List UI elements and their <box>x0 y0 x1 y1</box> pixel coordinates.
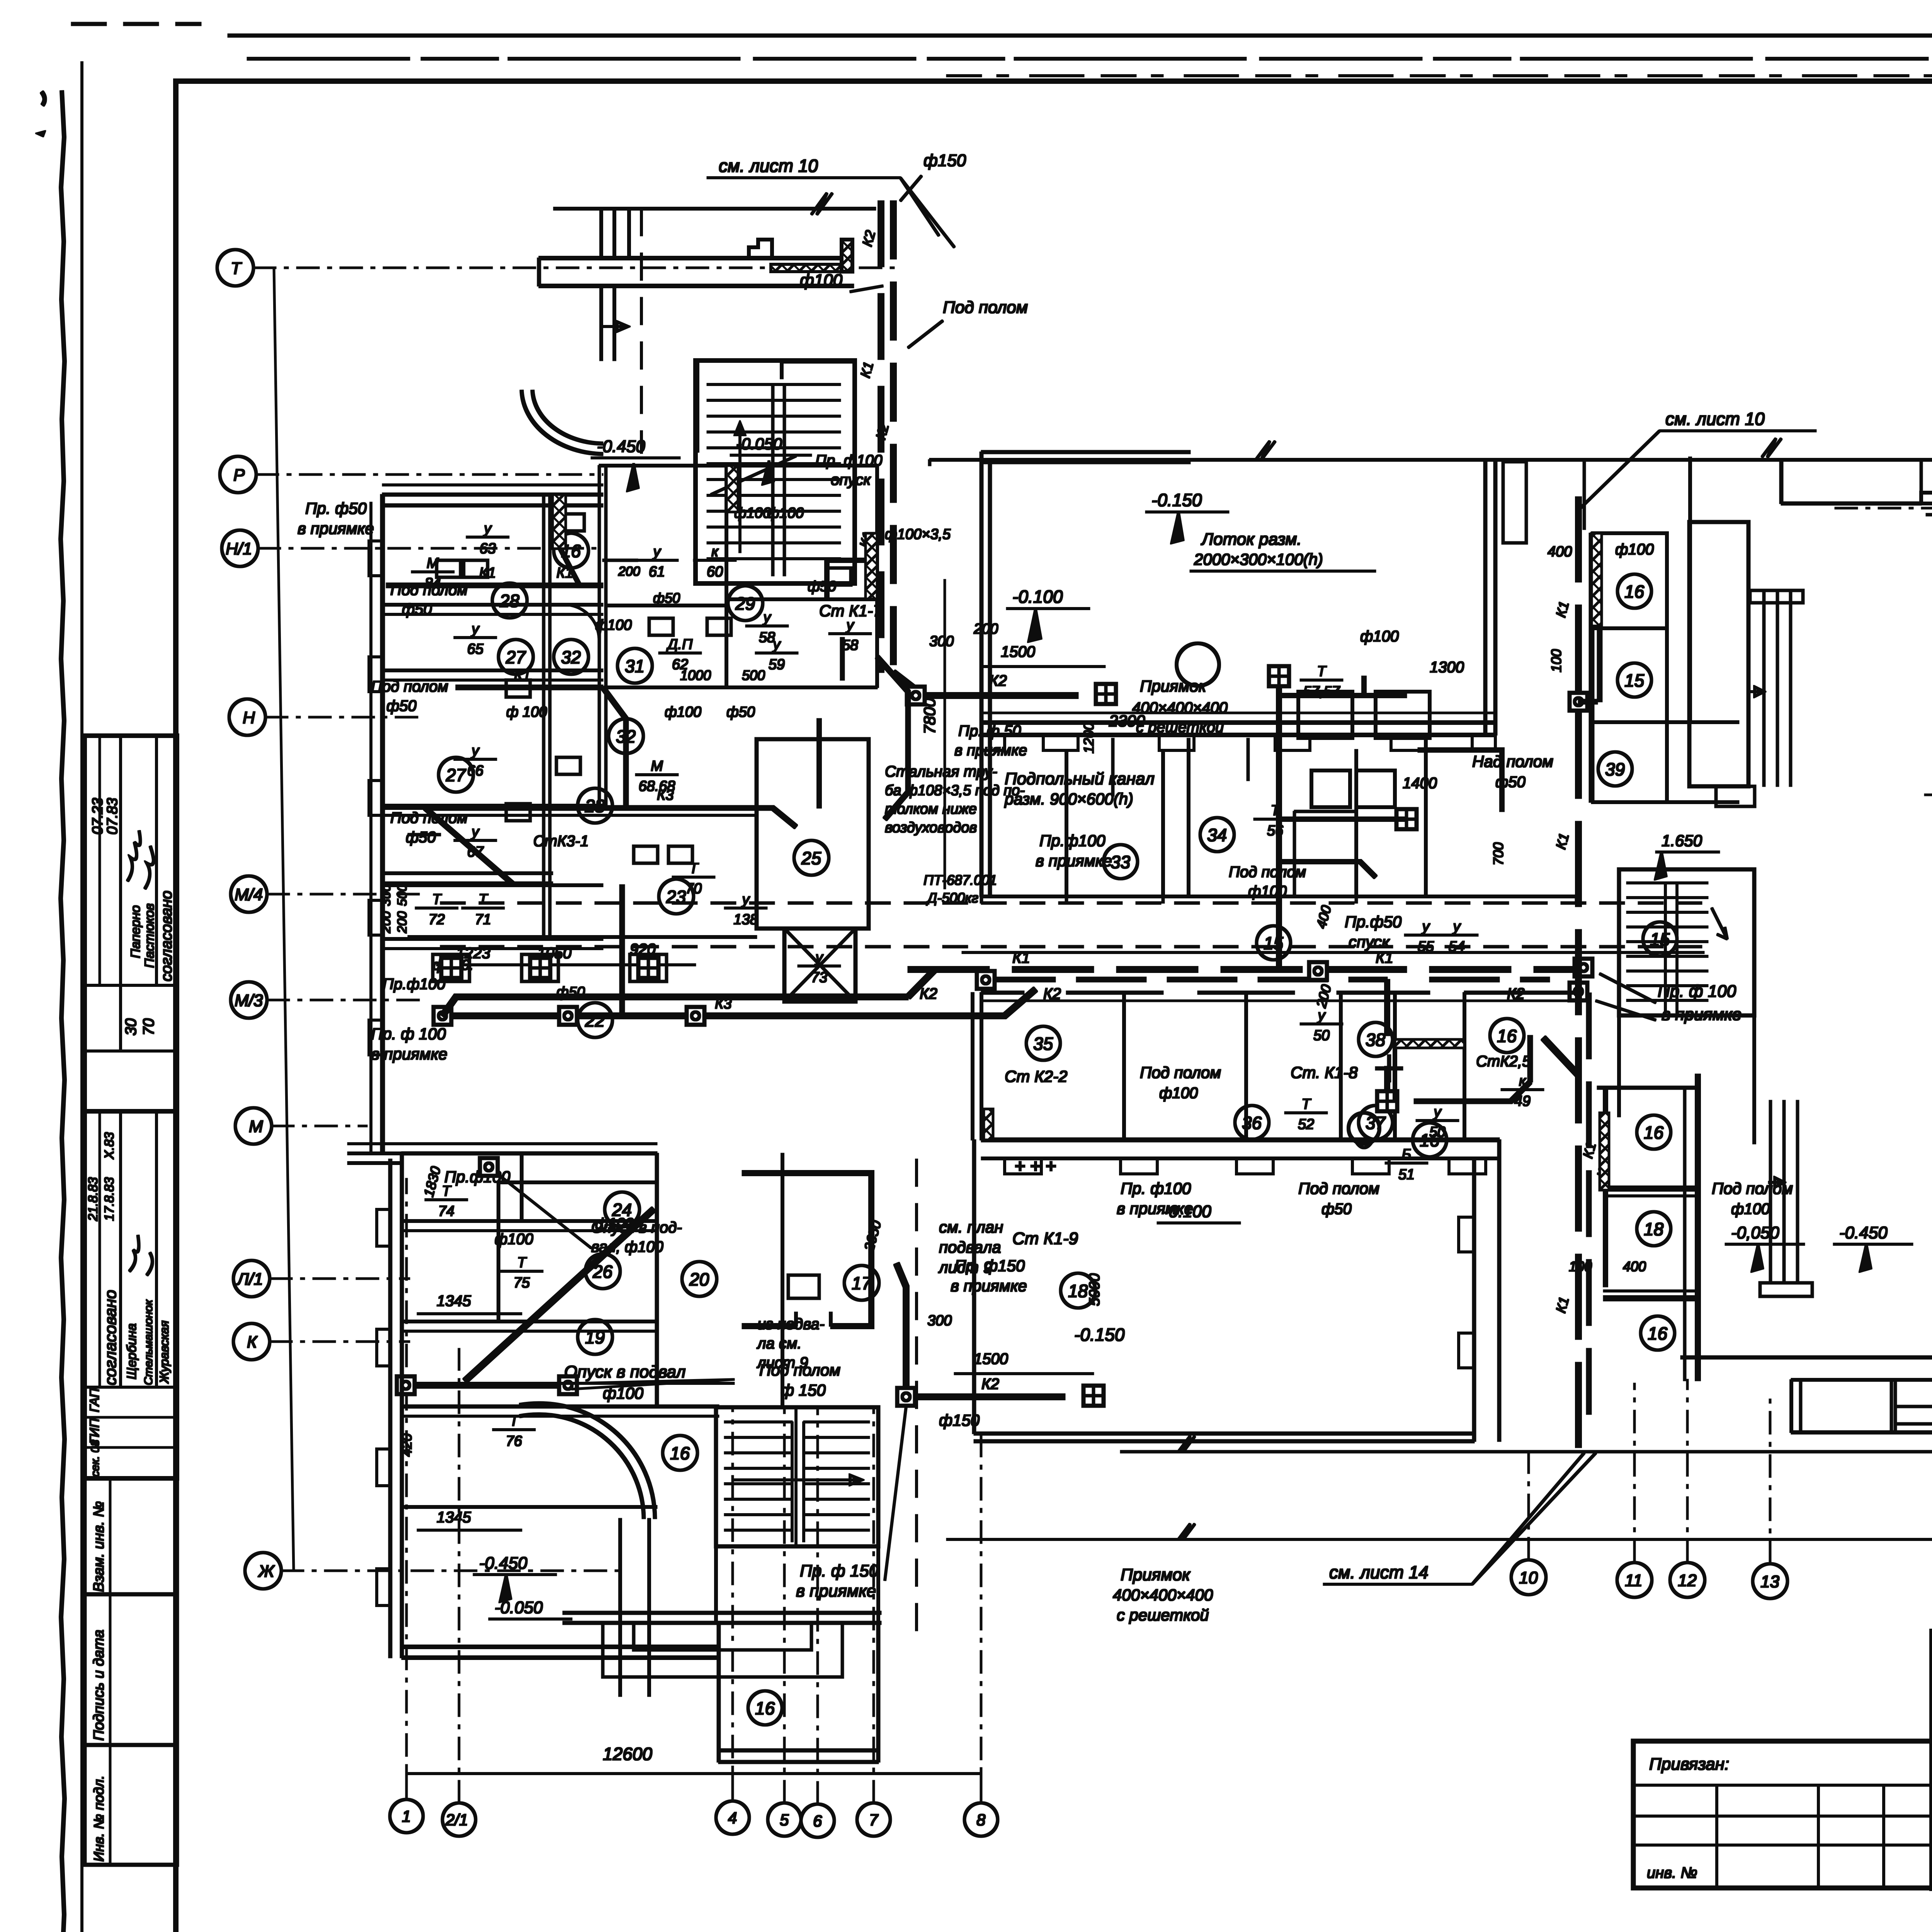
stair1 break diag <box>711 456 796 495</box>
svg-text:ф50: ф50 <box>653 590 680 606</box>
ULB pilasters left <box>369 541 383 1055</box>
svg-text:ф100: ф100 <box>1731 1201 1770 1218</box>
break sym 1 <box>1179 1436 1195 1452</box>
sewer K2 bottom vert <box>896 1264 906 1387</box>
leader opusk b <box>572 1379 734 1389</box>
svg-text:100: 100 <box>1548 649 1564 672</box>
svg-text:1000: 1000 <box>680 667 711 683</box>
svg-text:К1: К1 <box>479 565 496 581</box>
bottom portal steps <box>603 1623 842 1677</box>
ULB wall h2291 <box>383 884 603 887</box>
svg-text:20: 20 <box>689 1269 709 1289</box>
svg-text:-0,050: -0,050 <box>1731 1223 1779 1242</box>
sewer K3 diag 2 <box>425 808 514 885</box>
junction K3 f <box>480 1158 498 1176</box>
hatch wall 16b <box>726 466 738 512</box>
svg-text:Опуск в подвал: Опуск в подвал <box>564 1362 685 1381</box>
room16 wall left <box>697 361 711 452</box>
axis line 1 <box>406 1179 407 1799</box>
junction box K2 priyamok <box>907 687 925 704</box>
kitchen band wall h2320 <box>981 895 1577 898</box>
svg-text:Пр. ф100: Пр. ф100 <box>1121 1179 1191 1197</box>
sewer K2 segment right2 <box>1430 977 1549 982</box>
leader pr end2 <box>1596 1001 1656 1020</box>
axis line М/4 <box>267 893 421 895</box>
svg-text:Ст К2-2: Ст К2-2 <box>1005 1067 1067 1085</box>
LLW wall h3420 face <box>402 1330 657 1332</box>
stair1 arrow <box>735 423 745 553</box>
svg-text:Под полом: Под полом <box>1298 1179 1379 1197</box>
svg-text:у: у <box>1433 1104 1442 1120</box>
svg-text:согласовано: согласовано <box>101 1290 119 1385</box>
tambour wall a <box>601 209 614 258</box>
sewer K3 main h <box>442 989 1036 1016</box>
svg-text:39: 39 <box>1605 759 1625 779</box>
hatch wall 29a <box>866 533 877 599</box>
axis line П <box>1832 507 1932 509</box>
svg-text:ф100: ф100 <box>665 704 701 720</box>
svg-text:у: у <box>1421 918 1430 935</box>
room circle 28a <box>492 583 527 618</box>
room circle 15g <box>1617 663 1651 697</box>
svg-text:у: у <box>741 891 750 908</box>
axis line М/5 <box>1917 794 1932 796</box>
RW main K1 vert <box>1576 497 1582 1447</box>
svg-text:300: 300 <box>927 1313 952 1329</box>
svg-text:ф100: ф100 <box>800 271 843 290</box>
toilet bowl 37 <box>1356 1142 1372 1148</box>
room circle 20 <box>682 1262 717 1296</box>
room circle 16a <box>554 533 588 568</box>
room circle 16i <box>1641 1316 1675 1350</box>
svg-text:07.23: 07.23 <box>90 798 106 835</box>
axis circle Р <box>220 456 256 493</box>
svg-text:-0.050: -0.050 <box>736 435 782 453</box>
svg-text:54: 54 <box>1449 939 1465 955</box>
stamp block A row line <box>85 985 177 986</box>
svg-text:Под полом: Под полом <box>1140 1063 1221 1082</box>
ULB wall h2085 face <box>383 815 757 816</box>
room circle 39 <box>1598 752 1632 786</box>
LLW step ledge <box>348 1153 402 1163</box>
ULB wall h1565 face <box>383 614 603 616</box>
leader sm list14b <box>1472 1453 1596 1584</box>
svg-text:подвала: подвала <box>939 1238 1001 1256</box>
svg-text:16: 16 <box>1624 582 1645 602</box>
room circle 27b <box>439 757 473 792</box>
stamp block A signature squiggle 2 <box>145 846 153 889</box>
fixture 6 <box>649 618 673 635</box>
LLW wall h3900 <box>402 1506 657 1509</box>
svg-text:31: 31 <box>625 656 645 676</box>
grade line lower <box>947 1539 1932 1541</box>
stamp block B signature squiggle <box>129 1235 152 1275</box>
canopy left cap <box>537 258 541 286</box>
uline -0450 rwl <box>1833 1243 1913 1245</box>
svg-text:ГАП: ГАП <box>87 1388 102 1412</box>
svg-text:Т: Т <box>432 891 442 908</box>
svg-text:2/1: 2/1 <box>445 1811 468 1829</box>
RWB corridor arrow <box>1769 1178 1784 1187</box>
stair2 diag arrow <box>734 1475 862 1485</box>
stair2 treads <box>724 1422 869 1530</box>
corridor circle 15a <box>1257 926 1291 960</box>
svg-text:-0.100: -0.100 <box>1012 587 1063 607</box>
svg-text:Т: Т <box>231 259 242 278</box>
kitchen band wall v3510 <box>1355 750 1358 896</box>
small arrow mark left <box>36 131 46 137</box>
RWL hatched v <box>1604 1088 1608 1287</box>
left inner thin line <box>81 62 83 1932</box>
RWB corridor ledge <box>1760 1283 1812 1296</box>
stamp cell Взам инв <box>85 1478 177 1594</box>
sewer hall elbow <box>1279 862 1376 877</box>
fixture 8 <box>827 568 851 585</box>
svg-text:Ст К1-9: Ст К1-9 <box>1012 1229 1078 1248</box>
svg-text:Пр. ф 150: Пр. ф 150 <box>800 1561 879 1580</box>
room circle 22 <box>578 1003 612 1037</box>
svg-text:ф100×3,5: ф100×3,5 <box>885 526 951 543</box>
svg-text:15: 15 <box>1650 929 1670 949</box>
leader sm list14 <box>1472 1453 1584 1584</box>
uline lotok <box>1190 570 1376 572</box>
room17 partition <box>781 1153 784 1406</box>
LLW pilasters <box>377 1209 390 1605</box>
svg-text:1345: 1345 <box>437 1293 471 1310</box>
RW portal mid vert <box>1921 460 1932 527</box>
junction K3 c <box>687 1007 704 1025</box>
sewer K1 h2 line <box>456 685 603 690</box>
svg-text:у: у <box>845 617 855 633</box>
axis line Л/1 <box>270 1278 410 1279</box>
arrow -0450 low <box>500 1575 511 1602</box>
canopy band bottom <box>539 284 854 288</box>
svg-text:59: 59 <box>769 656 785 673</box>
axis line Н <box>265 716 421 718</box>
svg-text:16: 16 <box>1644 1122 1664 1143</box>
svg-text:1300: 1300 <box>1430 659 1464 676</box>
BC bottom wall hatched <box>981 1138 1499 1142</box>
svg-text:Взам. инв. №: Взам. инв. № <box>91 1501 107 1592</box>
room circle 16h <box>1637 1115 1671 1149</box>
svg-text:63: 63 <box>480 541 496 557</box>
svg-text:Н: Н <box>243 708 255 727</box>
hatch wall 38a2 <box>1395 1039 1464 1048</box>
svg-text:420: 420 <box>399 1434 415 1457</box>
ULB wall h1735 face <box>383 679 603 681</box>
BC bottom wall lower <box>981 1157 1499 1160</box>
stair2 box <box>716 1407 878 1546</box>
room circle 16e <box>1413 1123 1447 1157</box>
LLW room20 walls <box>498 1182 657 1321</box>
ULB wall h2085 <box>383 804 603 807</box>
junction K3 b <box>559 1007 577 1025</box>
junction main b <box>1309 962 1327 980</box>
stair3 treads <box>1627 883 1708 1000</box>
wall y1205 <box>599 464 877 467</box>
stamp cell Инв № подл <box>85 1745 177 1865</box>
sewer diag 38a <box>877 657 908 792</box>
svg-text:Т: Т <box>442 1183 452 1199</box>
room circle 33 <box>1104 845 1138 879</box>
axis circle 13 <box>1753 1564 1787 1599</box>
room circle 17 <box>844 1265 879 1300</box>
stair3 box <box>1619 869 1754 1015</box>
svg-text:Пр. ф150: Пр. ф150 <box>954 1257 1025 1275</box>
svg-text:11: 11 <box>1625 1571 1643 1590</box>
sewer K3 diag 1 <box>603 687 626 808</box>
svg-text:у: у <box>471 621 480 637</box>
sewer K1 room line 1 <box>421 583 603 588</box>
svg-text:60: 60 <box>707 564 723 580</box>
axis dashed x2372 <box>916 1159 918 1646</box>
room circle 18 <box>1061 1273 1095 1308</box>
svg-text:в приямке: в приямке <box>298 519 374 537</box>
svg-text:34: 34 <box>1207 825 1227 845</box>
ULB door arcs <box>564 605 599 639</box>
svg-text:Паперно: Паперно <box>128 905 143 958</box>
top wing outer edge line <box>554 207 876 210</box>
svg-text:15: 15 <box>1624 670 1645 690</box>
room circle 35 <box>1026 1026 1060 1060</box>
canopy notch <box>749 240 772 258</box>
LLW bottom wall <box>402 1647 719 1658</box>
axis circle 11 <box>1617 1563 1652 1597</box>
dim line x <box>437 964 696 966</box>
RWB steps inner <box>1801 1380 1932 1432</box>
svg-text:Н/1: Н/1 <box>226 539 252 558</box>
svg-text:ф50: ф50 <box>1321 1201 1352 1218</box>
sewer main K1 right <box>908 967 1583 973</box>
svg-text:07.83: 07.83 <box>104 798 121 835</box>
kitchen hatched corner <box>1418 750 1502 811</box>
sewer vert x1610 <box>620 885 624 1016</box>
stair1 stringer <box>773 384 784 576</box>
big room left wall <box>973 1140 976 1434</box>
axis circle Н/1 <box>222 530 258 566</box>
hall fixture rect2 <box>1376 692 1430 738</box>
stamp block A outer <box>85 736 177 1111</box>
svg-text:76: 76 <box>506 1433 522 1449</box>
sewer main K2 right <box>986 977 1387 982</box>
svg-text:Т: Т <box>478 891 488 908</box>
kitchen fixture 2 <box>1356 770 1395 807</box>
curved wall low inner <box>520 1415 644 1519</box>
axis line 10 <box>1528 1447 1529 1560</box>
tambour wall a low <box>601 286 614 361</box>
leader see sheet10 diag <box>900 178 954 247</box>
LLW wall h3160 <box>402 1153 657 1221</box>
svg-text:ф100: ф100 <box>1615 541 1654 558</box>
sewer 37 vert <box>1385 980 1390 1101</box>
stair2 lower box <box>716 1546 878 1623</box>
junction K2 bottom a <box>897 1388 915 1406</box>
svg-text:27: 27 <box>505 647 526 667</box>
sewer corner 38 <box>885 792 908 819</box>
axis circle 4 <box>716 1801 749 1834</box>
svg-text:у: у <box>471 824 480 840</box>
boundary vert x2406 <box>929 460 931 466</box>
svg-text:400: 400 <box>1548 544 1572 560</box>
axis line 8 <box>980 1430 982 1803</box>
fix corr 1 <box>433 954 469 981</box>
bottom portal lower band <box>719 1750 878 1762</box>
svg-text:Лоток разм.: Лоток разм. <box>1201 530 1302 549</box>
axis circle 5 <box>768 1803 801 1836</box>
svg-text:К2: К2 <box>981 1376 999 1393</box>
lift shaft box <box>784 929 855 1002</box>
svg-text:32: 32 <box>561 647 581 667</box>
svg-text:в приямке: в приямке <box>951 1277 1027 1295</box>
ULB wall v1551 <box>599 466 606 808</box>
sewer hall branch2 <box>1279 817 1406 821</box>
svg-text:у: у <box>652 544 662 560</box>
RWL wall top <box>1597 1086 1698 1089</box>
stair1 treads <box>707 384 840 559</box>
uline sm list 14 <box>1323 1583 1472 1585</box>
svg-text:21.8.83: 21.8.83 <box>86 1177 100 1221</box>
junction main c <box>1575 959 1592 976</box>
svg-text:74: 74 <box>438 1203 454 1219</box>
RWB corridor verticals <box>1770 1100 1798 1283</box>
svg-text:Под полом: Под полом <box>943 298 1028 317</box>
svg-text:52: 52 <box>1298 1116 1314 1133</box>
svg-text:К2: К2 <box>920 985 937 1002</box>
svg-text:200: 200 <box>379 911 393 934</box>
hatch wall 16a <box>553 495 566 549</box>
RW corridor arrow <box>1748 687 1764 696</box>
hall bottom wall face <box>981 712 1495 714</box>
sewer hall stub <box>1279 676 1406 696</box>
small arc ramp outer <box>522 390 603 454</box>
leader f150 <box>900 176 922 201</box>
axis dashed vert <box>641 209 643 453</box>
pit K2 upper <box>1096 684 1116 704</box>
room circle 16g <box>1617 574 1651 608</box>
RW portal door step <box>1926 503 1932 515</box>
svg-text:ф150: ф150 <box>923 151 966 170</box>
ULB top wall <box>383 495 603 505</box>
RW portal left vert <box>1780 460 1783 503</box>
svg-text:5000: 5000 <box>1087 1273 1103 1306</box>
svg-text:вал, ф100: вал, ф100 <box>591 1238 663 1255</box>
room circle 16c <box>663 1435 697 1470</box>
svg-text:400×400×400: 400×400×400 <box>1113 1586 1213 1604</box>
axis line 6 <box>817 1406 818 1804</box>
small arc ramp inner <box>532 390 603 444</box>
RWL walls <box>1604 1074 1698 1381</box>
LLW wall h3420 <box>402 1320 657 1323</box>
svg-text:10: 10 <box>1519 1568 1538 1587</box>
svg-text:Л/1: Л/1 <box>236 1270 263 1289</box>
axis line 7 <box>873 1406 874 1803</box>
svg-text:см. лист 14: см. лист 14 <box>1329 1562 1429 1582</box>
room circle 27a <box>498 639 533 674</box>
svg-text:300: 300 <box>929 633 954 650</box>
arrow -0450 rwl <box>1860 1244 1871 1271</box>
svg-text:у: у <box>1452 918 1461 935</box>
sewer K2 vert right <box>1587 993 1591 1430</box>
svg-text:33: 33 <box>1111 852 1131 872</box>
svg-text:К: К <box>247 1333 258 1352</box>
room18 hatched walls <box>742 1173 871 1326</box>
corridor inner line <box>962 952 1704 954</box>
svg-text:Т: Т <box>1301 1096 1311 1112</box>
svg-text:61: 61 <box>649 564 665 580</box>
svg-text:1500: 1500 <box>974 1350 1008 1367</box>
svg-text:Подпольный канал: Подпольный канал <box>1005 769 1155 788</box>
room circle 16d <box>748 1691 782 1725</box>
fixture 4 <box>556 757 580 774</box>
room circle 31 <box>617 648 652 683</box>
svg-text:согласовано: согласовано <box>158 891 175 981</box>
top edge break <box>811 193 832 214</box>
axis line М <box>272 1125 367 1127</box>
svg-text:Привязан:: Привязан: <box>1649 1755 1729 1774</box>
leader opusk c <box>498 1175 591 1248</box>
axis circle 6 <box>801 1804 834 1837</box>
hall jbox2 <box>1396 809 1417 829</box>
svg-text:Т: Т <box>1317 663 1327 680</box>
jbox corr a <box>441 958 461 978</box>
svg-text:37: 37 <box>1366 1113 1386 1133</box>
svg-text:36: 36 <box>1242 1113 1262 1133</box>
stamp block B outer <box>85 1111 177 1478</box>
svg-text:Пр.ф50: Пр.ф50 <box>1345 913 1402 931</box>
svg-text:1.650: 1.650 <box>1662 832 1702 850</box>
stair1 box <box>696 361 855 583</box>
svg-text:к: к <box>711 544 719 560</box>
svg-text:у: у <box>1317 1007 1326 1024</box>
fixture 0 <box>437 560 461 577</box>
svg-text:Пр.ф100: Пр.ф100 <box>1039 832 1105 850</box>
sewer K2 branch <box>893 672 1078 696</box>
svg-text:К2: К2 <box>1043 985 1061 1002</box>
svg-text:-0.450: -0.450 <box>597 437 645 456</box>
axis circle К <box>233 1323 270 1360</box>
sewer 37 plus <box>1376 1055 1403 1082</box>
svg-text:200: 200 <box>618 564 640 579</box>
toilet circle 37 <box>1349 1113 1379 1144</box>
sewer K1 vertical dashed <box>891 201 896 688</box>
sewer branch 28 <box>560 549 580 585</box>
RWB left vert <box>1790 1380 1793 1432</box>
svg-text:ф100: ф100 <box>495 1231 533 1248</box>
svg-text:Пр. ф 100: Пр. ф 100 <box>1658 982 1736 1001</box>
ULB room29 walls <box>726 466 877 687</box>
RW mid block <box>1689 522 1748 786</box>
svg-text:К3: К3 <box>657 787 674 803</box>
svg-text:инв. №: инв. № <box>1647 1864 1697 1881</box>
RW portal bottom left <box>1781 502 1921 505</box>
break sym top1 <box>1256 441 1275 460</box>
ULB outer left face <box>370 502 372 1153</box>
axis line 4 <box>732 1406 733 1801</box>
svg-text:Стельмашонок: Стельмашонок <box>142 1299 155 1385</box>
RW stair side walls <box>1619 869 1754 1144</box>
svg-text:70: 70 <box>140 1019 157 1036</box>
svg-text:Подпись и дата: Подпись и дата <box>91 1630 107 1741</box>
BC wall v3225 <box>1245 993 1248 1140</box>
svg-text:138: 138 <box>733 912 758 928</box>
room circle 38 <box>1359 1022 1393 1056</box>
axis circle М <box>235 1108 272 1144</box>
fix corr 2 <box>522 954 558 981</box>
BC room top walls <box>981 991 1577 994</box>
axis circle 10 <box>1511 1560 1546 1595</box>
svg-text:38: 38 <box>1366 1030 1386 1050</box>
room circle 24 <box>605 1192 639 1227</box>
